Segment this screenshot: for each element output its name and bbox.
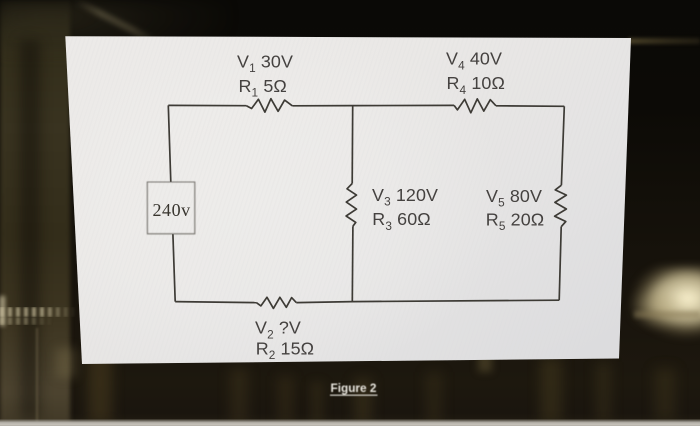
background: top-left olive lightening (0, 0, 230, 55)
svg-text:240v: 240v (153, 200, 191, 220)
background: scratch dashes left, y~310 (0, 307, 78, 317)
wire middle vertical lower (351, 226, 354, 301)
wire right vertical upper (561, 106, 564, 185)
wire R1 to R4 (292, 104, 454, 106)
background: bottom light strip (0, 419, 700, 426)
resistor R1 (246, 99, 292, 112)
wire left vertical upper (168, 105, 171, 182)
svg-text:Figure 2: Figure 2 (331, 381, 377, 395)
faint screen moire on panel (60, 30, 640, 370)
white paper panel (65, 36, 631, 364)
wire right vertical lower (559, 227, 561, 301)
wire left vertical lower (173, 234, 175, 302)
resistor R4 (454, 99, 496, 113)
resistor R5 (555, 185, 567, 227)
background: dark vertical streak in left band (20, 40, 40, 420)
background: right bright blob reflection (622, 266, 700, 354)
wire R2 to bottom-right corner (296, 300, 559, 302)
background: faint streak right of panel top corner (628, 38, 700, 44)
background: left olive band (0, 0, 70, 426)
resistor R2 (256, 297, 296, 308)
background: diagonal streak top-left (73, 0, 158, 46)
caption Figure 2 (330, 381, 378, 395)
wire R4 to top-right corner (496, 105, 564, 108)
background: dotted scratch right y~315 (634, 311, 700, 318)
background: thin vertical scratch left (36, 328, 38, 426)
resistor R3 (346, 184, 356, 227)
wire bottom-left to R2 (175, 302, 256, 303)
background: bottom khaki smudges (88, 350, 112, 422)
wire middle vertical upper (351, 106, 354, 184)
battery source box 240v (147, 182, 195, 234)
wire top-left to R1 (168, 104, 246, 106)
panel subtle bright center-left (0, 15, 640, 385)
